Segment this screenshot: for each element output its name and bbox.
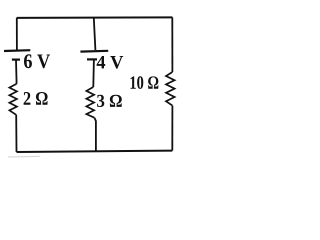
wire: left branch top (rail to battery) bbox=[16, 18, 18, 50]
wire: battery 6V to resistor 2ohm bbox=[15, 60, 18, 84]
resistor R3 10ohm zigzag bbox=[166, 72, 175, 106]
battery 6V long plate (+) bbox=[4, 49, 30, 52]
label: 10 ohm resistor value bbox=[131, 76, 159, 89]
label: 6 V battery value bbox=[24, 54, 50, 68]
wire: right branch bottom (resistor to rail) bbox=[171, 106, 173, 151]
battery 4V long plate (+) bbox=[80, 50, 108, 53]
scan shadow artifact below bottom rail bbox=[8, 155, 40, 158]
wire: left branch bottom (resistor to rail) bbox=[15, 115, 17, 152]
label: 2 ohm resistor value bbox=[24, 92, 48, 105]
wire: top rail bbox=[17, 16, 173, 19]
wire: middle branch top (rail to battery) bbox=[94, 18, 96, 50]
resistor R2 3ohm zigzag bbox=[86, 87, 94, 118]
wire: right branch top (rail to resistor) bbox=[171, 17, 173, 72]
battery 6V short plate (-) bbox=[12, 58, 20, 60]
label: 4 V battery value bbox=[97, 56, 124, 69]
wire: bottom rail bbox=[17, 151, 173, 152]
battery 4V short plate (-) bbox=[87, 58, 97, 60]
resistor R1 2ohm zigzag bbox=[9, 84, 17, 115]
wire: battery 4V to resistor 3ohm bbox=[92, 59, 95, 87]
label: 3 ohm resistor value bbox=[97, 95, 122, 107]
wire: middle branch bottom (resistor to rail) bbox=[94, 118, 96, 152]
